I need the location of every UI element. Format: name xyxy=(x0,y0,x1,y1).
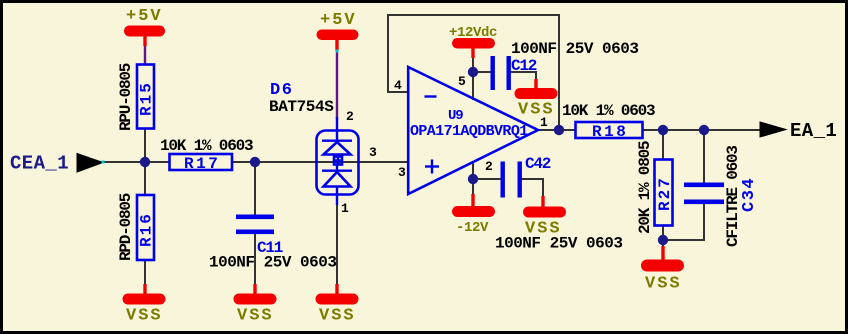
node dot on +5V wire xyxy=(336,50,339,53)
svg-text:+5V: +5V xyxy=(320,11,357,30)
wire node A to R15 xyxy=(144,128,146,162)
resistor R17 xyxy=(170,154,233,173)
svg-text:CFILTRE 0603: CFILTRE 0603 xyxy=(724,146,742,247)
power +12Vdc symbol xyxy=(452,38,495,58)
svg-text:R16: R16 xyxy=(138,212,156,247)
wire node B to C11 xyxy=(254,162,256,216)
svg-text:3: 3 xyxy=(369,145,377,160)
capacitor C11 xyxy=(236,215,283,258)
node E junction xyxy=(699,125,709,135)
wire R27 to node G xyxy=(662,226,664,243)
svg-text:EA_1: EA_1 xyxy=(790,120,837,142)
node G junction xyxy=(658,235,668,245)
node D junction xyxy=(658,125,668,135)
wire C42 to VSS xyxy=(519,179,543,199)
wire node G to VSS xyxy=(662,240,664,250)
svg-text:R18: R18 xyxy=(592,123,628,141)
wire CEA_1 input to node A xyxy=(101,161,146,163)
wire R18 to node D xyxy=(643,129,664,131)
wire node B to op-amp pin 3 through D6 xyxy=(255,161,408,163)
svg-text:20K 1% 0805: 20K 1% 0805 xyxy=(636,141,654,234)
wire C34 to node G xyxy=(662,203,704,240)
ground VSS symbol below D6 xyxy=(316,284,359,305)
svg-text:5: 5 xyxy=(458,74,466,89)
svg-text:1: 1 xyxy=(341,201,349,216)
wire node E to EA_1 output xyxy=(704,129,762,131)
resistor R27 xyxy=(655,160,675,226)
svg-text:R15: R15 xyxy=(138,81,156,116)
wire op-amp output pin 1 to node F xyxy=(537,129,575,131)
svg-text:100NF 25V 0603: 100NF 25V 0603 xyxy=(511,40,638,58)
svg-text:2: 2 xyxy=(485,159,493,174)
svg-text:C42: C42 xyxy=(525,155,551,173)
resistor R18 xyxy=(576,122,643,141)
svg-text:C34: C34 xyxy=(740,177,759,212)
svg-text:3: 3 xyxy=(398,165,406,180)
svg-text:BAT754S: BAT754S xyxy=(269,98,334,116)
node A junction xyxy=(140,157,150,167)
svg-text:100NF 25V 0603: 100NF 25V 0603 xyxy=(495,235,622,253)
wire C11 to VSS xyxy=(254,233,256,287)
ground VSS symbol below C42 xyxy=(523,196,566,218)
wire node E to C34 xyxy=(703,130,705,184)
wire node D to R27 xyxy=(662,130,664,159)
svg-text:10K 1% 0603: 10K 1% 0603 xyxy=(160,137,253,155)
svg-text:10K 1% 0603: 10K 1% 0603 xyxy=(562,102,655,120)
node C junction xyxy=(468,67,478,77)
svg-text:4: 4 xyxy=(394,78,402,93)
svg-text:+12Vdc: +12Vdc xyxy=(449,25,497,41)
op-amp U9 xyxy=(408,67,538,194)
svg-text:-12V: -12V xyxy=(456,220,489,236)
svg-text:CEA_1: CEA_1 xyxy=(10,153,69,175)
ground VSS symbol below C12 xyxy=(515,79,558,99)
ground VSS symbol below C11 xyxy=(234,284,277,305)
wire op-amp pin 2 to -12V xyxy=(472,161,474,197)
wire D6 pin 1 to VSS xyxy=(336,204,338,287)
wire node A to R17 xyxy=(145,161,169,163)
wire R17 to node B xyxy=(232,161,256,163)
wire node C to C12 xyxy=(473,71,492,73)
ground VSS symbol below R27 xyxy=(641,246,684,272)
wire +5V to R15 (power net) xyxy=(144,44,146,65)
wire feedback op-amp pin 4 to output node xyxy=(388,15,559,130)
node at CEA_1 arrow tip xyxy=(102,161,105,164)
svg-text:VSS: VSS xyxy=(518,101,555,120)
svg-text:RPU-0805: RPU-0805 xyxy=(117,63,135,131)
svg-text:+5V: +5V xyxy=(126,7,163,26)
svg-text:VSS: VSS xyxy=(237,307,274,326)
power +5V symbol 1 xyxy=(124,26,165,47)
wire +5V to D6 pin 2 (power net) xyxy=(336,51,338,119)
node F junction xyxy=(554,125,564,135)
wire node D to node E xyxy=(663,129,705,131)
svg-text:C12: C12 xyxy=(511,57,537,75)
svg-text:U9: U9 xyxy=(448,108,463,124)
capacitor C42 xyxy=(501,155,551,198)
resistor R16 xyxy=(137,195,156,260)
power +5V symbol 2 xyxy=(317,30,359,52)
wire R16 to VSS xyxy=(144,261,146,287)
svg-text:100NF 25V 0603: 100NF 25V 0603 xyxy=(209,254,336,272)
node B junction xyxy=(250,157,260,167)
svg-text:R27: R27 xyxy=(656,176,674,211)
capacitor C12 xyxy=(491,56,537,90)
wire +12Vdc to op-amp pin 5 xyxy=(472,55,474,100)
svg-text:RPD-0805: RPD-0805 xyxy=(117,193,135,261)
svg-text:R17: R17 xyxy=(184,155,220,173)
svg-text:VSS: VSS xyxy=(645,275,682,294)
diode D6 BAT754S body xyxy=(317,117,359,205)
svg-text:2: 2 xyxy=(346,109,354,124)
resistor R15 xyxy=(137,65,156,129)
capacitor C34 xyxy=(684,177,759,212)
wire node A to R16 xyxy=(144,162,146,195)
wire C12 to VSS xyxy=(508,72,536,82)
ground VSS symbol below R16 xyxy=(123,284,166,305)
port arrow CEA_1 xyxy=(77,154,103,173)
svg-text:VSS: VSS xyxy=(126,307,163,326)
power -12V symbol xyxy=(452,194,495,217)
svg-text:VSS: VSS xyxy=(319,307,356,326)
port arrow EA_1 xyxy=(760,122,786,137)
wire node H to C42 xyxy=(473,178,502,180)
svg-text:1: 1 xyxy=(540,115,548,130)
node H junction xyxy=(468,174,478,184)
svg-text:OPA171AQDBVRQ1: OPA171AQDBVRQ1 xyxy=(410,123,528,140)
